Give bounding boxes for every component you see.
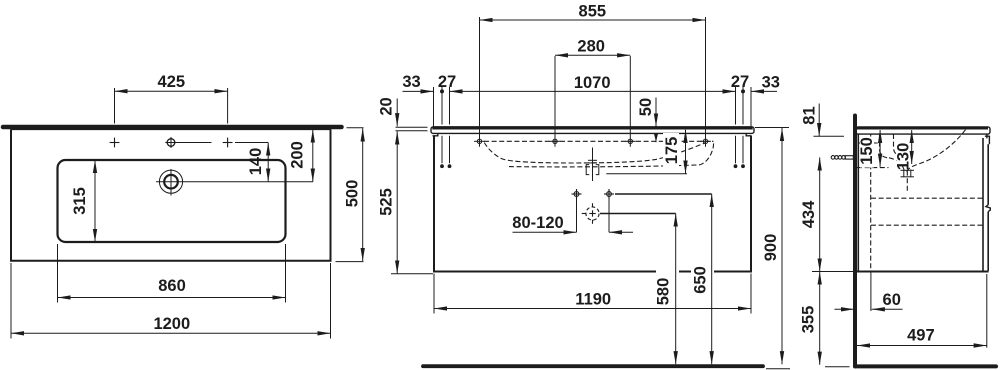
svg-text:27: 27	[438, 73, 456, 91]
svg-text:1200: 1200	[153, 315, 190, 333]
svg-text:525: 525	[378, 188, 396, 216]
svg-text:580: 580	[655, 278, 673, 306]
svg-text:500: 500	[344, 180, 362, 208]
svg-text:355: 355	[800, 306, 818, 334]
svg-text:150: 150	[858, 137, 876, 165]
svg-text:900: 900	[762, 234, 780, 262]
svg-text:434: 434	[800, 200, 818, 228]
svg-text:650: 650	[692, 266, 710, 294]
svg-text:315: 315	[71, 187, 89, 215]
svg-text:860: 860	[158, 277, 186, 295]
svg-text:140: 140	[247, 148, 265, 176]
svg-text:60: 60	[883, 291, 901, 309]
svg-text:1190: 1190	[575, 291, 611, 309]
svg-text:80-120: 80-120	[512, 214, 563, 232]
svg-text:200: 200	[289, 141, 307, 169]
svg-text:497: 497	[907, 326, 935, 344]
svg-text:50: 50	[637, 98, 655, 116]
svg-text:33: 33	[762, 74, 780, 92]
svg-text:280: 280	[577, 37, 605, 55]
svg-text:130: 130	[895, 143, 913, 171]
svg-text:425: 425	[158, 73, 186, 91]
svg-text:175: 175	[663, 137, 681, 165]
svg-text:1070: 1070	[574, 74, 611, 92]
svg-text:855: 855	[579, 2, 607, 20]
svg-text:20: 20	[378, 97, 396, 115]
svg-text:33: 33	[402, 73, 420, 91]
svg-text:27: 27	[731, 73, 749, 91]
svg-text:81: 81	[801, 106, 819, 124]
